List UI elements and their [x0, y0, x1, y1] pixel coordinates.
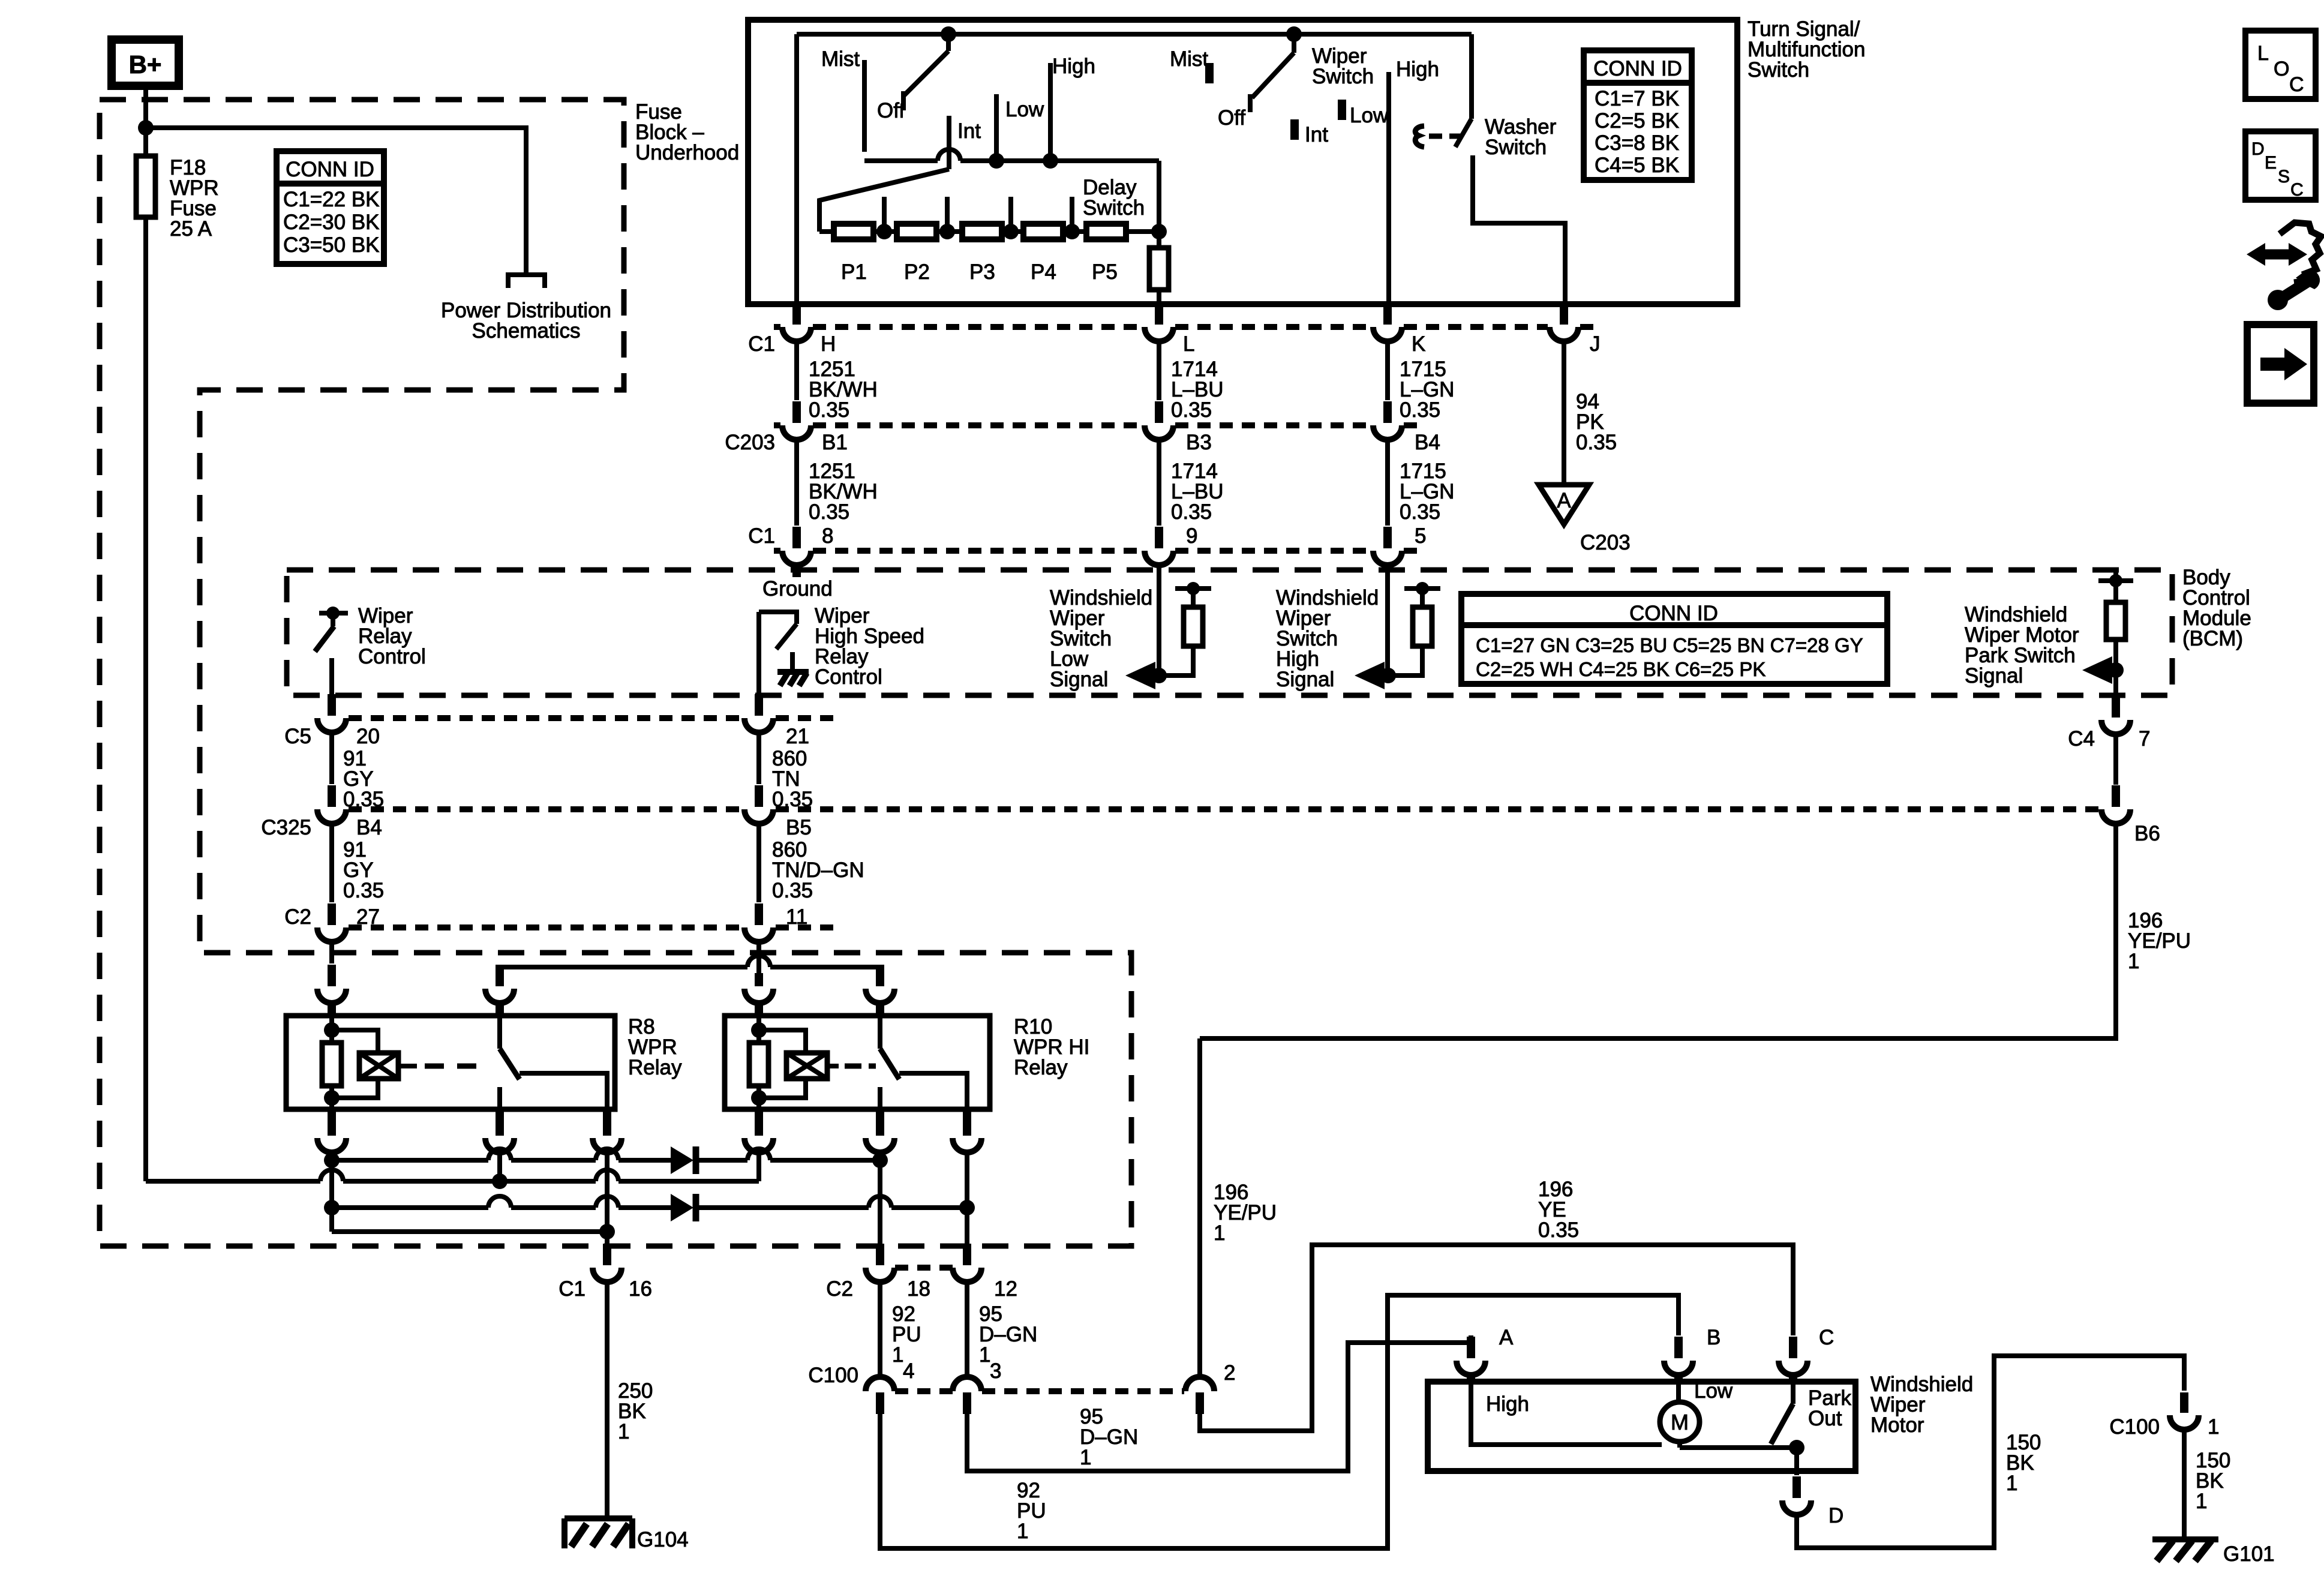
svg-text:1: 1: [892, 1343, 903, 1367]
svg-text:Mist: Mist: [1170, 47, 1208, 71]
svg-text:Signal: Signal: [1050, 668, 1108, 691]
svg-text:C3=8 BK: C3=8 BK: [1595, 131, 1679, 155]
svg-text:1: 1: [2196, 1490, 2207, 1513]
svg-text:CONN ID: CONN ID: [1629, 602, 1718, 625]
svg-text:B3: B3: [1186, 431, 1212, 454]
svg-text:1: 1: [1017, 1520, 1028, 1543]
svg-text:C2=5 BK: C2=5 BK: [1595, 109, 1679, 133]
svg-text:0.35: 0.35: [343, 879, 384, 902]
svg-text:0.35: 0.35: [809, 398, 849, 422]
svg-text:5: 5: [1415, 524, 1426, 548]
svg-text:A: A: [1499, 1326, 1514, 1349]
svg-text:C1=22 BK: C1=22 BK: [283, 188, 380, 211]
svg-text:Low: Low: [1005, 98, 1044, 121]
svg-text:L: L: [2257, 42, 2269, 65]
svg-text:1: 1: [1214, 1221, 1225, 1245]
svg-text:Ground: Ground: [762, 577, 833, 601]
svg-text:S: S: [2278, 167, 2290, 187]
svg-text:2: 2: [1224, 1361, 1235, 1385]
svg-text:0.35: 0.35: [1400, 500, 1440, 524]
svg-text:0.35: 0.35: [772, 788, 813, 811]
svg-text:C: C: [2290, 180, 2304, 200]
svg-text:Out: Out: [1808, 1407, 1842, 1430]
svg-text:C325: C325: [261, 816, 311, 839]
svg-text:P4: P4: [1031, 260, 1056, 284]
svg-text:High: High: [1396, 58, 1439, 81]
svg-text:Control: Control: [358, 645, 426, 668]
svg-text:4: 4: [903, 1359, 914, 1383]
svg-text:High: High: [1486, 1392, 1529, 1416]
svg-text:J: J: [1590, 332, 1601, 356]
svg-text:Int: Int: [957, 119, 981, 143]
svg-text:B: B: [1707, 1326, 1721, 1349]
svg-text:C1: C1: [559, 1277, 585, 1301]
svg-text:D: D: [2251, 139, 2265, 159]
svg-text:12: 12: [994, 1277, 1017, 1301]
svg-text:C2: C2: [284, 905, 311, 929]
svg-text:Motor: Motor: [1870, 1413, 1924, 1437]
svg-text:Switch: Switch: [1083, 196, 1145, 220]
svg-text:Off: Off: [877, 99, 905, 122]
svg-text:K: K: [1412, 332, 1425, 356]
svg-text:B4: B4: [1415, 431, 1440, 454]
svg-text:C203: C203: [725, 431, 775, 454]
svg-text:B6: B6: [2134, 822, 2160, 845]
svg-text:0.35: 0.35: [772, 879, 813, 902]
svg-text:H: H: [821, 332, 836, 356]
svg-text:Signal: Signal: [1276, 668, 1334, 691]
svg-text:P3: P3: [969, 260, 995, 284]
svg-text:L: L: [1183, 332, 1194, 356]
svg-text:B4: B4: [356, 816, 382, 839]
svg-text:Relay: Relay: [1014, 1056, 1068, 1079]
svg-text:C1=27 GN C3=25 BU C5=25 BN: C1=27 GN C3=25 BU C5=25 BN C7=28 GY: [1476, 634, 1863, 656]
svg-text:1: 1: [979, 1343, 990, 1367]
svg-text:Schematics: Schematics: [472, 319, 581, 343]
svg-text:E: E: [2265, 153, 2277, 173]
svg-text:P1: P1: [841, 260, 867, 284]
svg-text:18: 18: [907, 1277, 930, 1301]
svg-text:11: 11: [786, 905, 807, 929]
svg-text:0.35: 0.35: [1576, 431, 1617, 454]
svg-text:C5: C5: [284, 725, 311, 748]
svg-text:(BCM): (BCM): [2182, 627, 2243, 650]
svg-text:B1: B1: [822, 431, 848, 454]
svg-text:C100: C100: [808, 1364, 858, 1387]
svg-text:C3=50 BK: C3=50 BK: [283, 233, 380, 257]
svg-text:Switch: Switch: [1747, 58, 1809, 82]
svg-text:8: 8: [822, 524, 833, 548]
svg-text:C4: C4: [2068, 727, 2095, 751]
svg-text:Signal: Signal: [1965, 664, 2023, 688]
svg-text:Off: Off: [1218, 106, 1245, 130]
svg-text:Switch: Switch: [1485, 136, 1547, 159]
svg-text:Int: Int: [1305, 123, 1328, 146]
svg-text:1: 1: [2128, 950, 2139, 973]
svg-text:High: High: [1052, 55, 1095, 78]
svg-text:7: 7: [2139, 727, 2150, 751]
svg-text:Low: Low: [1694, 1379, 1733, 1403]
svg-text:C: C: [1819, 1326, 1834, 1349]
svg-text:P2: P2: [904, 260, 930, 284]
svg-text:D: D: [1828, 1504, 1843, 1527]
svg-text:0.35: 0.35: [343, 788, 384, 811]
svg-text:20: 20: [356, 725, 380, 748]
svg-text:1: 1: [2006, 1472, 2017, 1495]
svg-text:C2=25 WH C4=25 BK C6=25 PK: C2=25 WH C4=25 BK C6=25 PK: [1476, 658, 1765, 680]
svg-text:M: M: [1671, 1410, 1689, 1434]
svg-text:CONN ID: CONN ID: [286, 158, 374, 181]
svg-text:C2: C2: [826, 1277, 853, 1301]
svg-text:C2=30 BK: C2=30 BK: [283, 211, 380, 234]
svg-text:C1=7 BK: C1=7 BK: [1595, 87, 1679, 110]
svg-text:25 A: 25 A: [170, 217, 212, 241]
svg-text:3: 3: [990, 1359, 1001, 1383]
svg-text:Low: Low: [1350, 104, 1389, 127]
svg-text:C4=5 BK: C4=5 BK: [1595, 154, 1679, 177]
svg-text:C: C: [2289, 73, 2304, 96]
svg-text:27: 27: [356, 905, 380, 929]
svg-text:1: 1: [1080, 1446, 1091, 1469]
svg-text:O: O: [2274, 58, 2289, 80]
svg-text:1: 1: [2208, 1415, 2219, 1439]
svg-text:21: 21: [786, 725, 809, 748]
svg-text:Mist: Mist: [821, 47, 860, 71]
svg-text:C1: C1: [748, 524, 775, 548]
svg-text:Switch: Switch: [1312, 65, 1374, 88]
svg-text:A: A: [1557, 489, 1571, 512]
svg-text:0.35: 0.35: [1171, 500, 1212, 524]
svg-text:1: 1: [618, 1420, 629, 1443]
svg-text:G104: G104: [637, 1528, 689, 1551]
svg-text:B+: B+: [129, 50, 162, 79]
svg-text:0.35: 0.35: [809, 500, 849, 524]
svg-text:C1: C1: [748, 332, 775, 356]
svg-text:0.35: 0.35: [1538, 1218, 1579, 1242]
svg-text:C203: C203: [1580, 531, 1631, 554]
svg-text:Underhood: Underhood: [635, 141, 739, 164]
svg-text:9: 9: [1186, 524, 1197, 548]
svg-text:16: 16: [629, 1277, 652, 1301]
svg-text:0.35: 0.35: [1400, 398, 1440, 422]
svg-text:Relay: Relay: [628, 1056, 682, 1079]
svg-text:P5: P5: [1092, 260, 1118, 284]
svg-text:G101: G101: [2223, 1542, 2275, 1566]
svg-text:B5: B5: [786, 816, 812, 839]
svg-text:Control: Control: [815, 665, 882, 689]
svg-text:CONN ID: CONN ID: [1593, 57, 1682, 80]
svg-text:0.35: 0.35: [1171, 398, 1212, 422]
svg-text:C100: C100: [2109, 1415, 2160, 1439]
